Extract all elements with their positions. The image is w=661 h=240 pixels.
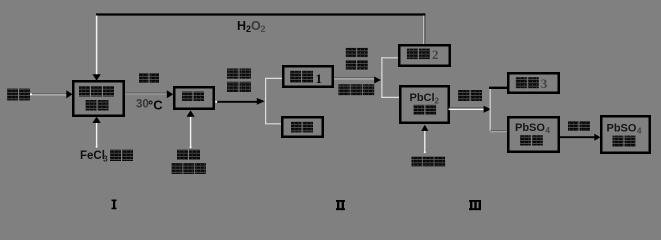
label 过滤 (left) xyxy=(227,82,251,92)
arrowhead into fork1 xyxy=(257,98,265,105)
wire fork1 vertical xyxy=(265,78,267,124)
wire fork2 top branch to B5 xyxy=(381,57,398,59)
node label III xyxy=(469,200,481,210)
wire fork2 vertical xyxy=(381,57,383,98)
svg-text:FeCl: FeCl xyxy=(80,150,105,162)
svg-text:3: 3 xyxy=(541,76,548,91)
svg-text:2: 2 xyxy=(261,24,266,34)
node label II xyxy=(336,200,345,210)
label 搅拌 xyxy=(139,73,159,83)
arrowhead into B6 bottom xyxy=(421,125,428,131)
wire fork2 bottom branch to B6 xyxy=(381,96,400,98)
arrowhead into B1 bottom xyxy=(92,117,100,123)
process box B2 产物 xyxy=(174,87,214,109)
process box B9 PbSO4粉末 xyxy=(601,116,650,153)
wire B1 to B2 stem xyxy=(125,93,167,94)
svg-text:1: 1 xyxy=(316,71,323,86)
wire B3 to fork2 stem xyxy=(334,78,374,79)
process box B1 方铅矿精矿 xyxy=(73,81,124,116)
wire fork3 bottom branch to B8 xyxy=(490,131,507,132)
wire fork1 bottom branch to B4 xyxy=(265,123,281,125)
wire dilute HCl stem (white, up into B6) xyxy=(424,131,426,153)
arrowhead into fork3 xyxy=(484,106,492,113)
label 趁热 xyxy=(227,68,251,78)
svg-text:O: O xyxy=(251,19,261,33)
wire FeCl3 solution arrow stem (white, up into B1) xyxy=(96,123,98,148)
wire fork1 top branch to B3 xyxy=(265,77,282,79)
label 盐酸 xyxy=(7,89,30,101)
process box B4 滤渣 xyxy=(282,117,323,137)
wire recycle drop to B5 滤液2 xyxy=(424,16,425,45)
wire recycle drop into B1 (white) xyxy=(96,16,98,75)
svg-text:PbSO: PbSO xyxy=(515,122,545,134)
label 过滤 (right) xyxy=(458,90,482,101)
arrowhead into fork2 xyxy=(374,77,381,84)
wire B8 to B9 stem (black) xyxy=(560,136,595,138)
wire saturated brine stem (white, up into B2) xyxy=(190,117,192,148)
arrowhead into B2 left xyxy=(167,90,174,98)
svg-text:2: 2 xyxy=(435,96,440,105)
process box B5 滤液2 xyxy=(399,45,450,66)
label 浓缩 xyxy=(346,60,368,70)
arrowhead into B9 left xyxy=(594,134,600,141)
svg-text:2: 2 xyxy=(432,47,439,62)
label 饱和 xyxy=(177,150,200,161)
label 食盐水 xyxy=(172,163,206,174)
wire fork3 vertical xyxy=(489,88,491,131)
label 蒸发 xyxy=(346,48,368,58)
wire B2 to fork1 stem (black) xyxy=(215,101,257,103)
node label I xyxy=(112,200,117,210)
svg-text:3: 3 xyxy=(103,153,108,163)
process box B7 滤液3 xyxy=(508,73,559,93)
svg-text:4: 4 xyxy=(637,127,642,136)
wire 盐酸 arrow stem xyxy=(30,93,67,95)
wire B6 to fork3 stem xyxy=(449,108,484,109)
process box B8 PbSO4沉淀 xyxy=(508,117,559,152)
svg-text:H: H xyxy=(237,19,246,33)
label 冰水浴 xyxy=(338,84,374,95)
label 烘干 xyxy=(568,121,590,131)
svg-text:4: 4 xyxy=(546,126,551,135)
svg-text:PbSO: PbSO xyxy=(607,122,637,134)
svg-text:30: 30 xyxy=(136,99,149,111)
arrowhead into B1 left xyxy=(66,90,72,98)
process box B6 PbCl2晶体 xyxy=(400,86,449,123)
label 30℃ xyxy=(136,98,163,113)
svg-text:PbCl: PbCl xyxy=(410,92,435,104)
wire top recycle line xyxy=(96,13,425,15)
label H2O2 xyxy=(237,19,266,34)
svg-text:°C: °C xyxy=(148,98,163,113)
label 稀盐酸 xyxy=(412,157,446,167)
label FeCl3溶液 xyxy=(80,150,133,164)
arrowhead into B1 top xyxy=(92,74,100,80)
wire fork3 top branch to B7 (black) xyxy=(489,87,508,89)
arrowhead into B2 bottom xyxy=(187,110,195,117)
process box B3 滤液1 xyxy=(283,66,333,87)
